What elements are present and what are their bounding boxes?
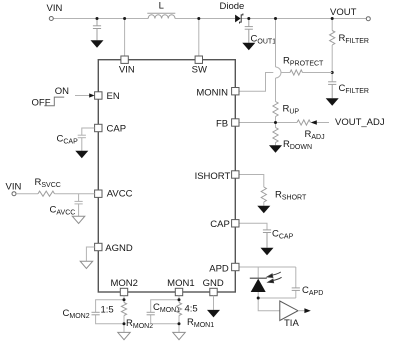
wire RSHORT to ground [263,202,265,206]
resistor RMON1 [176,303,181,316]
svg-text:VIN: VIN [47,3,63,14]
svg-text:4:5: 4:5 [185,304,198,315]
pin AGND [95,243,102,250]
wire AGND to ground [86,247,94,261]
wire RSVCC to AVCC pin [55,193,95,195]
inductor L [147,13,175,18]
svg-text:VIN: VIN [119,65,135,76]
svg-text:OFF: OFF [32,97,51,108]
ground open at RMON1 [173,332,185,339]
resistor RFILTER [330,31,335,46]
wire MON2 branch [96,296,124,333]
capacitor CCAP (left) [78,128,95,151]
ON/OFF step signal [44,97,64,106]
svg-text:GND: GND [203,278,224,289]
node junction MON2 bottom [123,322,126,325]
node junction RPROTECT-CFILTER [331,71,334,74]
resistor RSHORT [261,187,266,202]
ground open at AGND [80,261,93,268]
pin AVCC [95,190,102,197]
ground solid at CCAP right [261,248,274,256]
ground open at CAVCC [72,216,85,223]
wire FB to RADJ [239,122,297,124]
resistor RPROTECT [290,70,303,75]
svg-text:VOUT: VOUT [330,7,357,18]
ground solid at GND pin [207,310,220,318]
node junction MON1 bottom [178,322,181,325]
pin APD [232,263,239,270]
node junction VIN pin [123,17,126,20]
node junction RFILTER top [331,17,334,20]
pin MONIN [232,88,239,95]
arrow TIA output [298,308,311,313]
svg-text:Diode: Diode [220,1,245,12]
arrow VOUT_ADJ input [311,120,329,125]
capacitor COUT1 [245,19,253,43]
svg-text:TIA: TIA [284,318,299,329]
capacitor CIN at VIN rail [93,19,101,41]
svg-text:MON2: MON2 [110,278,137,289]
pin MON2 [120,288,127,295]
terminal VIN top-left [49,17,53,21]
svg-text:1:5: 1:5 [101,305,114,316]
ground solid at COUT1 [242,43,255,51]
pin GND [210,288,217,295]
node junction FB [274,121,277,124]
wire GND pin to ground [213,296,215,310]
wire MON1 branch [151,296,179,333]
wire RFILTER column [331,19,333,82]
terminal VIN (AVCC branch) [12,192,16,196]
svg-text:APD: APD [209,264,229,275]
capacitor CAVCC [75,194,83,217]
capacitor CMON1 [147,312,155,315]
ground solid at RSHORT [257,206,270,214]
pin MON1 [175,288,182,295]
pin EN [95,92,102,99]
svg-text:AVCC: AVCC [107,189,133,200]
capacitor CCAP (right) [263,230,271,248]
wire MONIN to RPROTECT [239,73,332,92]
node junction CIN [96,17,99,20]
svg-text:SW: SW [192,65,207,76]
node junction RUP top [274,17,277,20]
node junction MON2 top [123,298,126,301]
resistor RDOWN [273,128,278,143]
pin ISHORT [232,171,239,178]
svg-text:EN: EN [107,91,120,102]
terminal VOUT [366,17,370,21]
ground open at RMON2 [118,332,130,339]
IC U1 body [98,60,235,292]
wire ISHORT branch [239,175,264,188]
svg-text:CAP: CAP [107,124,127,135]
svg-text:MON1: MON1 [167,278,194,289]
svg-text:MONIN: MONIN [196,87,228,98]
node junction SW [197,17,200,20]
wire RUP to FB node [275,117,277,128]
diode D1 (Schottky) [235,14,243,24]
pin VIN [121,56,128,63]
pin SW [195,56,202,63]
ground solid at RDOWN [269,145,282,153]
wire RUP column from VOUT rail with hop over MONIN wire [276,19,282,102]
pin CAP right [232,220,239,227]
svg-text:ON: ON [55,86,69,97]
light arrows into photodiode [267,272,281,283]
svg-text:AGND: AGND [105,243,133,254]
wire CAP pin branch (right) [239,223,267,230]
node junction APD anode [257,297,260,300]
resistor RADJ [297,120,311,125]
ground solid at CFILTER [326,98,339,106]
svg-text:CAP: CAP [210,219,230,230]
pin FB [232,119,239,126]
svg-text:VIN: VIN [6,182,22,193]
wire RDOWN to ground [275,143,277,146]
resistor RMON2 [121,303,126,316]
svg-text:FB: FB [216,119,228,130]
wire VIN to RSVCC [16,193,38,195]
node junction MON1 top [178,298,181,301]
wire top rail VIN to inductor [53,18,366,20]
arrow EN input [75,93,95,97]
wire APD net [239,267,296,311]
capacitor CMON2 [92,312,100,315]
op-amp TIA [280,301,298,321]
photodiode APD [250,278,267,292]
resistor RSVCC [38,191,55,196]
pin CAP left [95,124,102,131]
resistor RUP [273,102,278,117]
ground solid at CIN [91,40,104,48]
node junction COUT1 [247,17,250,20]
ground solid at CCAP left [75,151,88,159]
wire SW pin drop [198,19,200,57]
svg-text:VOUT_ADJ: VOUT_ADJ [335,117,385,128]
wire VIN pin drop [124,19,126,57]
svg-text:L: L [159,1,164,12]
svg-text:ISHORT: ISHORT [195,171,231,182]
capacitor CFILTER [328,82,336,98]
capacitor CAPD [292,288,300,291]
